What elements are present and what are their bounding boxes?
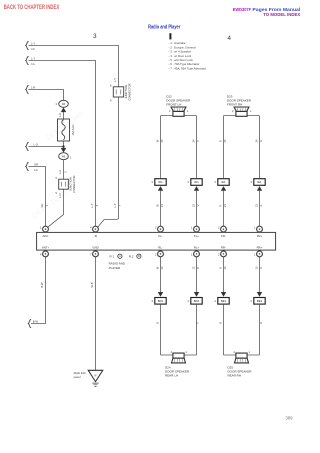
svg-text:2: 2 [232, 109, 234, 113]
svg-text:2: 2 [170, 350, 172, 354]
svg-text:4: 4 [214, 299, 216, 303]
svg-text:IE1: IE1 [257, 180, 262, 184]
svg-text:4B: 4B [62, 102, 65, 106]
svg-text:L-Y: L-Y [113, 203, 117, 207]
svg-text:L-R: L-R [31, 86, 35, 90]
svg-text:L-Y: L-Y [31, 42, 35, 46]
svg-text:DEMO DEMO: DEMO DEMO [31, 188, 71, 219]
svg-text:REAR RH: REAR RH [228, 374, 242, 378]
svg-text:R: R [218, 204, 222, 206]
svg-text:24: 24 [254, 139, 258, 142]
svg-text:BD1: BD1 [158, 299, 164, 303]
svg-text:G: G [259, 204, 263, 206]
svg-text:4: 4 [250, 299, 252, 303]
svg-text:RL-: RL- [158, 246, 163, 250]
svg-text:ID1: ID1 [194, 180, 199, 184]
svg-text:I-G: I-G [34, 168, 38, 172]
svg-text:B-W: B-W [33, 319, 39, 323]
svg-text:4: 4 [40, 252, 42, 256]
svg-text:7: 7 [90, 252, 92, 256]
svg-text:PLAYER: PLAYER [109, 266, 121, 270]
svg-text:FR-: FR- [221, 234, 226, 238]
svg-text:JUNCTION: JUNCTION [68, 177, 72, 191]
svg-text:R: R [218, 267, 222, 269]
svg-text:15A ACC: 15A ACC [71, 124, 75, 135]
svg-text:2: 2 [218, 226, 220, 230]
svg-text:L-R: L-R [58, 113, 62, 117]
svg-text:FRONT RH: FRONT RH [227, 102, 242, 106]
svg-text:B: B [196, 267, 200, 269]
svg-text:3: 3 [151, 180, 153, 184]
svg-text:H: H [259, 322, 263, 324]
svg-text:BE1: BE1 [257, 299, 263, 303]
svg-text:GR: GR [40, 203, 44, 207]
svg-text:RR-: RR- [221, 246, 226, 250]
svg-text:W: W [155, 204, 159, 207]
svg-text:L-Y: L-Y [31, 57, 35, 61]
svg-text:4B: 4B [62, 154, 65, 158]
svg-text:1: 1 [40, 226, 42, 230]
svg-text:BE1: BE1 [221, 299, 227, 303]
svg-text:2: 2 [155, 226, 157, 230]
svg-text:22: 22 [191, 204, 195, 207]
svg-text:IE1: IE1 [221, 180, 226, 184]
svg-text:R: R [218, 140, 222, 142]
svg-text:24: 24 [191, 139, 195, 142]
svg-text:4: 4 [151, 299, 153, 303]
svg-text:G: G [259, 140, 263, 142]
svg-text:R 2: R 2 [129, 254, 134, 258]
svg-text:3: 3 [250, 180, 252, 184]
svg-text:2: 2 [155, 252, 157, 256]
svg-text:5: 5 [63, 171, 67, 173]
svg-text:CONNECTOR: CONNECTOR [72, 176, 76, 193]
svg-text:V: V [196, 322, 200, 324]
svg-text:B: B [218, 322, 222, 324]
svg-text:REAR LH: REAR LH [165, 374, 178, 378]
svg-text:L-O: L-O [58, 193, 62, 197]
svg-text:FL-: FL- [158, 234, 162, 238]
svg-text:W: W [155, 139, 159, 142]
svg-text:RR+: RR+ [257, 246, 263, 250]
svg-text:V: V [196, 140, 200, 142]
svg-text:I-D: I-D [31, 47, 35, 51]
svg-text:1: 1 [191, 226, 193, 230]
svg-text:2: 2 [169, 109, 171, 113]
svg-text:L-Y: L-Y [113, 78, 117, 82]
svg-text:22: 22 [254, 204, 258, 207]
svg-text:5: 5 [55, 191, 57, 195]
svg-text:15: 15 [191, 266, 195, 269]
svg-text:1: 1 [248, 350, 250, 354]
svg-text:1: 1 [254, 252, 256, 256]
svg-text:8: 8 [110, 99, 112, 103]
svg-text:3: 3 [56, 102, 58, 106]
svg-text:8: 8 [110, 83, 112, 87]
svg-text:1: 1 [70, 155, 72, 159]
svg-text:GND: GND [92, 246, 98, 250]
svg-text:W: W [155, 266, 159, 269]
svg-text:B: B [155, 322, 159, 324]
svg-text:CONNECTOR: CONNECTOR [128, 83, 132, 100]
svg-text:3: 3 [187, 180, 189, 184]
svg-text:15: 15 [254, 266, 258, 269]
svg-text:L-Y: L-Y [90, 203, 94, 207]
svg-text:3: 3 [93, 33, 97, 40]
svg-text:B-W: B-W [40, 282, 44, 288]
svg-text:FL+: FL+ [194, 234, 199, 238]
svg-text:3: 3 [214, 180, 216, 184]
svg-text:2: 2 [233, 350, 235, 354]
svg-text:EWD307F: EWD307F [233, 7, 251, 12]
svg-text:FR+: FR+ [257, 234, 263, 238]
svg-text:BACK TO CHAPTER INDEX: BACK TO CHAPTER INDEX [4, 4, 60, 11]
svg-text:V: V [196, 204, 200, 206]
svg-text:BD1: BD1 [194, 299, 200, 303]
svg-text:W-B: W-B [90, 282, 94, 287]
svg-text:5: 5 [55, 176, 57, 180]
svg-text:R 1: R 1 [110, 254, 115, 258]
svg-text:4: 4 [187, 299, 189, 303]
svg-text:L-O: L-O [34, 143, 38, 147]
svg-text:H: H [259, 267, 263, 269]
svg-text:I-G: I-G [31, 62, 35, 66]
svg-text:Radio and Player: Radio and Player [148, 24, 180, 30]
svg-text:1: 1 [254, 226, 256, 230]
svg-text:TO MODEL INDEX: TO MODEL INDEX [263, 12, 300, 17]
svg-text:L-O: L-O [58, 170, 62, 174]
svg-text:- 7 : 45A, 55A Type Alternator: - 7 : 45A, 55A Type Alternator [169, 66, 207, 70]
svg-text:ID1: ID1 [158, 180, 163, 184]
svg-text:4: 4 [227, 35, 231, 42]
svg-text:ANT+: ANT+ [42, 246, 50, 250]
svg-text:GR: GR [34, 163, 38, 167]
svg-text:2: 2 [218, 252, 220, 256]
svg-text:panel: panel [74, 375, 81, 379]
svg-text:1: 1 [191, 252, 193, 256]
svg-text:389: 389 [285, 416, 293, 421]
svg-text:4: 4 [90, 226, 92, 230]
svg-text:RL+: RL+ [194, 246, 200, 250]
svg-text:1: 1 [187, 109, 189, 113]
svg-text:1: 1 [250, 109, 252, 113]
svg-text:JUNCTION: JUNCTION [124, 85, 128, 99]
svg-text:FRONT LH: FRONT LH [166, 102, 181, 106]
svg-text:ACC: ACC [43, 234, 49, 238]
svg-text:-B: -B [94, 234, 97, 238]
svg-text:1: 1 [185, 350, 187, 354]
